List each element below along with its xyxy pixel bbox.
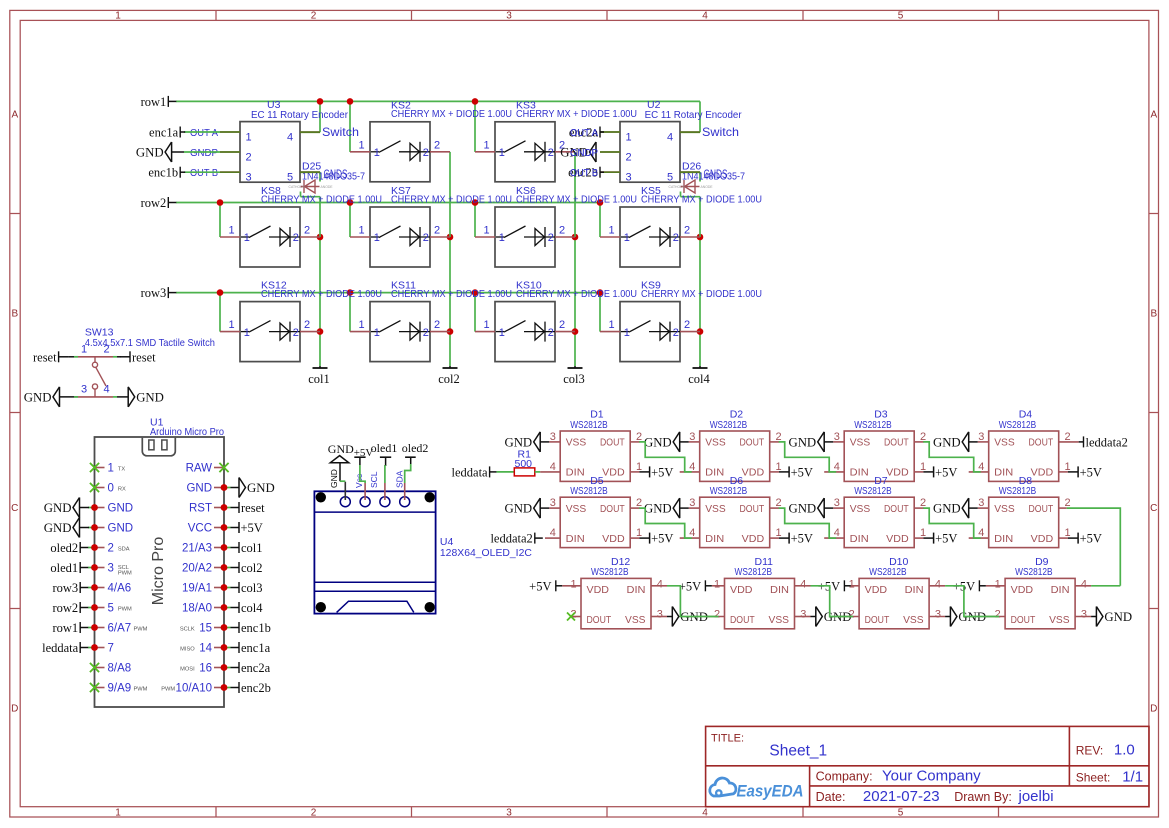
svg-text:SDA: SDA [394, 470, 404, 488]
svg-text:DIN: DIN [705, 533, 724, 545]
svg-text:DIN: DIN [566, 533, 585, 545]
svg-text:PWM: PWM [134, 626, 148, 632]
svg-text:DIN: DIN [627, 584, 646, 596]
svg-text:DOUT: DOUT [730, 614, 755, 626]
svg-text:reset: reset [132, 350, 156, 364]
svg-text:VDD: VDD [742, 533, 765, 545]
svg-text:1: 1 [499, 232, 505, 244]
svg-text:DOUT: DOUT [865, 614, 890, 626]
svg-text:DIN: DIN [994, 533, 1013, 545]
svg-text:2: 2 [304, 225, 310, 237]
svg-text:PWM: PWM [118, 606, 132, 612]
svg-text:CHERRY MX + DIODE 1.00U: CHERRY MX + DIODE 1.00U [261, 193, 382, 205]
svg-text:1: 1 [484, 139, 490, 151]
svg-text:DIN: DIN [1051, 584, 1070, 596]
svg-text:5: 5 [667, 172, 673, 184]
svg-text:enc1b: enc1b [148, 166, 178, 180]
svg-text:1: 1 [484, 319, 490, 331]
svg-text:EasyEDA: EasyEDA [737, 783, 804, 801]
svg-text:VSS: VSS [994, 437, 1015, 449]
svg-text:7: 7 [108, 643, 114, 655]
svg-text:Date:: Date: [816, 790, 846, 804]
svg-text:D: D [11, 704, 18, 715]
svg-text:1: 1 [374, 327, 380, 339]
svg-text:VDD: VDD [602, 467, 625, 479]
svg-text:GND: GND [933, 502, 961, 516]
svg-text:1/1: 1/1 [1122, 768, 1143, 785]
svg-text:+5V: +5V [791, 532, 813, 546]
svg-text:+5V: +5V [935, 532, 957, 546]
svg-text:1: 1 [499, 327, 505, 339]
svg-text:RST: RST [189, 503, 212, 515]
svg-text:DOUT: DOUT [740, 503, 765, 515]
svg-text:PWM: PWM [161, 687, 175, 693]
svg-text:+5V: +5V [935, 465, 957, 479]
svg-text:DOUT: DOUT [587, 614, 612, 626]
svg-text:GND: GND [24, 390, 52, 404]
svg-text:reset: reset [241, 501, 265, 515]
svg-text:GND: GND [504, 502, 532, 516]
svg-text:VSS: VSS [625, 614, 646, 626]
svg-text:enc1a: enc1a [241, 641, 271, 655]
svg-text:20/A2: 20/A2 [182, 563, 212, 575]
svg-text:DOUT: DOUT [884, 503, 909, 515]
svg-text:WS2812B: WS2812B [591, 566, 629, 578]
svg-text:3: 3 [108, 563, 114, 575]
svg-text:A: A [1150, 110, 1157, 121]
svg-text:1: 1 [115, 807, 121, 818]
svg-text:10/A10: 10/A10 [176, 683, 212, 695]
svg-text:2: 2 [684, 319, 690, 331]
svg-text:CHERRY MX + DIODE 1.00U: CHERRY MX + DIODE 1.00U [391, 108, 512, 120]
svg-text:DIN: DIN [994, 467, 1013, 479]
svg-text:2: 2 [434, 319, 440, 331]
svg-text:3: 3 [506, 807, 512, 818]
svg-text:col3: col3 [563, 372, 585, 386]
svg-text:4: 4 [667, 132, 673, 144]
svg-text:VSS: VSS [1049, 614, 1070, 626]
svg-text:GND: GND [108, 523, 134, 535]
svg-text:Your Company: Your Company [882, 767, 981, 784]
svg-text:WS2812B: WS2812B [999, 485, 1036, 497]
svg-text:2: 2 [423, 232, 429, 244]
svg-text:VSS: VSS [705, 503, 726, 515]
svg-text:6/A7: 6/A7 [108, 623, 132, 635]
svg-text:col2: col2 [438, 372, 460, 386]
svg-text:oled1: oled1 [371, 441, 398, 455]
svg-text:+5V: +5V [651, 532, 673, 546]
svg-text:VSS: VSS [705, 437, 726, 449]
svg-text:5: 5 [108, 603, 114, 615]
svg-text:SCL: SCL [369, 471, 379, 488]
svg-text:4: 4 [1081, 578, 1087, 590]
svg-text:row1: row1 [52, 621, 78, 635]
svg-text:OUT B: OUT B [570, 167, 598, 179]
svg-text:14: 14 [199, 643, 212, 655]
svg-text:row3: row3 [141, 286, 167, 300]
svg-text:DOUT: DOUT [600, 503, 625, 515]
svg-text:B: B [1150, 309, 1157, 320]
svg-text:WS2812B: WS2812B [1015, 566, 1053, 578]
svg-text:VDD: VDD [886, 533, 909, 545]
svg-text:4: 4 [702, 11, 708, 22]
svg-text:WS2812B: WS2812B [869, 566, 907, 578]
svg-text:Sheet:: Sheet: [1076, 770, 1111, 784]
svg-text:D: D [1150, 704, 1157, 715]
svg-text:TX: TX [118, 466, 125, 472]
svg-text:GND: GND [136, 146, 164, 160]
svg-text:1: 1 [624, 327, 630, 339]
svg-text:2: 2 [548, 327, 554, 339]
svg-text:GND: GND [1104, 610, 1132, 624]
svg-text:4: 4 [935, 578, 941, 590]
svg-text:1: 1 [995, 578, 1001, 590]
svg-text:CHERRY MX + DIODE 1.00U: CHERRY MX + DIODE 1.00U [516, 193, 637, 205]
svg-text:1: 1 [499, 147, 505, 159]
svg-text:5: 5 [898, 11, 904, 22]
svg-text:1: 1 [108, 463, 114, 475]
svg-text:4: 4 [287, 132, 293, 144]
svg-text:+5V: +5V [529, 579, 551, 593]
svg-text:3: 3 [506, 11, 512, 22]
svg-text:2: 2 [559, 319, 565, 331]
svg-text:1: 1 [374, 232, 380, 244]
svg-text:Switch: Switch [702, 125, 739, 139]
svg-text:1.0: 1.0 [1114, 742, 1135, 759]
svg-text:VSS: VSS [903, 614, 924, 626]
svg-text:Sheet_1: Sheet_1 [769, 743, 827, 760]
svg-text:SCLK: SCLK [180, 627, 195, 633]
svg-text:oled2: oled2 [50, 541, 78, 555]
svg-text:21/A3: 21/A3 [182, 543, 212, 555]
svg-text:WS2812B: WS2812B [735, 566, 773, 578]
svg-text:VDD: VDD [730, 584, 753, 596]
svg-text:leddata: leddata [452, 465, 489, 479]
svg-text:col1: col1 [241, 541, 263, 555]
svg-text:2: 2 [434, 225, 440, 237]
svg-text:DIN: DIN [850, 533, 869, 545]
svg-text:2: 2 [995, 608, 1001, 620]
svg-text:CHERRY MX + DIODE 1.00U: CHERRY MX + DIODE 1.00U [261, 288, 382, 300]
svg-text:3: 3 [800, 608, 806, 620]
svg-text:GND: GND [644, 502, 672, 516]
svg-text:3: 3 [1081, 608, 1087, 620]
svg-text:oled2: oled2 [402, 441, 429, 455]
svg-text:18/A0: 18/A0 [182, 603, 212, 615]
svg-text:+5V: +5V [651, 465, 673, 479]
svg-text:CHERRY MX + DIODE 1.00U: CHERRY MX + DIODE 1.00U [641, 288, 762, 300]
svg-text:TITLE:: TITLE: [711, 733, 744, 745]
svg-text:1: 1 [626, 132, 632, 144]
svg-text:3: 3 [657, 608, 663, 620]
svg-text:GND: GND [788, 502, 816, 516]
svg-text:2: 2 [684, 225, 690, 237]
svg-text:WS2812B: WS2812B [854, 485, 892, 497]
svg-text:VDD: VDD [1011, 584, 1034, 596]
svg-text:VCC: VCC [188, 523, 212, 535]
svg-text:enc2b: enc2b [241, 681, 271, 695]
svg-text:2: 2 [548, 147, 554, 159]
svg-text:+5V: +5V [791, 465, 813, 479]
svg-text:DIN: DIN [566, 467, 585, 479]
svg-text:GND: GND [136, 390, 164, 404]
svg-text:REV:: REV: [1076, 744, 1104, 758]
svg-text:CHERRY MX + DIODE 1.00U: CHERRY MX + DIODE 1.00U [391, 193, 512, 205]
svg-text:0: 0 [108, 483, 114, 495]
svg-text:Switch: Switch [322, 125, 359, 139]
svg-text:1: 1 [244, 327, 250, 339]
svg-text:DOUT: DOUT [740, 437, 765, 449]
svg-text:EC 11 Rotary Encoder: EC 11 Rotary Encoder [645, 109, 742, 121]
svg-text:4: 4 [702, 807, 708, 818]
svg-text:1: 1 [229, 225, 235, 237]
svg-text:CATHODE: CATHODE [289, 185, 306, 189]
svg-text:1: 1 [484, 225, 490, 237]
svg-text:+5V: +5V [1080, 465, 1102, 479]
svg-text:CHERRY MX + DIODE 1.00U: CHERRY MX + DIODE 1.00U [641, 193, 762, 205]
svg-text:WS2812B: WS2812B [854, 419, 892, 431]
svg-text:B: B [11, 309, 18, 320]
svg-text:VDD: VDD [865, 584, 888, 596]
svg-text:Drawn By:: Drawn By: [954, 790, 1012, 804]
svg-text:2: 2 [626, 152, 632, 164]
svg-text:1: 1 [609, 225, 615, 237]
svg-text:2: 2 [423, 147, 429, 159]
svg-text:VSS: VSS [994, 503, 1015, 515]
svg-text:DIN: DIN [850, 467, 869, 479]
svg-text:1: 1 [571, 578, 577, 590]
svg-text:1: 1 [609, 319, 615, 331]
svg-text:+5V: +5V [241, 521, 263, 535]
svg-text:WS2812B: WS2812B [570, 419, 608, 431]
svg-text:1: 1 [359, 319, 365, 331]
svg-text:col3: col3 [241, 581, 263, 595]
svg-text:5: 5 [287, 172, 293, 184]
svg-text:1: 1 [624, 232, 630, 244]
svg-text:RAW: RAW [186, 463, 213, 475]
svg-text:enc1b: enc1b [241, 621, 271, 635]
svg-text:col2: col2 [241, 561, 263, 575]
svg-text:DIN: DIN [770, 584, 789, 596]
svg-text:GND: GND [186, 483, 212, 495]
svg-text:1: 1 [359, 225, 365, 237]
svg-text:OUT A: OUT A [570, 127, 598, 139]
svg-text:DOUT: DOUT [600, 437, 625, 449]
svg-text:3: 3 [81, 383, 87, 395]
svg-text:VDD: VDD [742, 467, 765, 479]
svg-text:2: 2 [849, 608, 855, 620]
svg-text:GND: GND [329, 469, 339, 488]
svg-text:2: 2 [293, 327, 299, 339]
svg-text:C: C [1150, 503, 1157, 514]
svg-text:enc1a: enc1a [149, 126, 179, 140]
svg-text:15: 15 [199, 623, 212, 635]
svg-text:RX: RX [118, 486, 126, 492]
svg-text:1: 1 [359, 139, 365, 151]
svg-text:1: 1 [244, 232, 250, 244]
svg-text:leddata2: leddata2 [1086, 435, 1128, 449]
svg-text:VDD: VDD [1031, 533, 1054, 545]
svg-text:PWM: PWM [134, 686, 148, 692]
svg-text:19/A1: 19/A1 [182, 583, 212, 595]
svg-text:VSS: VSS [850, 437, 871, 449]
svg-text:2: 2 [434, 139, 440, 151]
svg-text:GND: GND [44, 521, 72, 535]
svg-text:3: 3 [935, 608, 941, 620]
svg-text:EC 11 Rotary Encoder: EC 11 Rotary Encoder [251, 109, 348, 121]
svg-text:1: 1 [115, 11, 121, 22]
svg-text:row2: row2 [141, 196, 167, 210]
svg-text:+5V: +5V [1080, 532, 1102, 546]
svg-text:VSS: VSS [566, 503, 587, 515]
svg-text:GNDS: GNDS [704, 167, 728, 181]
svg-text:Company:: Company: [816, 769, 873, 783]
svg-text:8/A8: 8/A8 [108, 663, 132, 675]
svg-text:CHERRY MX + DIODE 1.00U: CHERRY MX + DIODE 1.00U [516, 108, 637, 120]
svg-text:A: A [11, 110, 18, 121]
svg-text:1: 1 [81, 343, 87, 355]
svg-text:WS2812B: WS2812B [999, 419, 1036, 431]
svg-text:GND: GND [44, 501, 72, 515]
svg-text:MOSI: MOSI [180, 667, 195, 673]
svg-text:2: 2 [673, 232, 679, 244]
svg-text:ANODE: ANODE [321, 185, 334, 189]
svg-text:1: 1 [714, 578, 720, 590]
svg-text:GNDP: GNDP [570, 147, 598, 159]
svg-text:VSS: VSS [566, 437, 587, 449]
svg-text:CHERRY MX + DIODE 1.00U: CHERRY MX + DIODE 1.00U [391, 288, 512, 300]
svg-text:GND: GND [933, 435, 961, 449]
svg-text:5: 5 [898, 807, 904, 818]
svg-text:DOUT: DOUT [1011, 614, 1036, 626]
svg-text:Arduino Micro Pro: Arduino Micro Pro [150, 426, 224, 438]
svg-text:C: C [11, 503, 18, 514]
svg-text:16: 16 [199, 663, 212, 675]
svg-text:4: 4 [800, 578, 806, 590]
svg-text:GND: GND [328, 442, 354, 456]
svg-text:enc2a: enc2a [241, 661, 271, 675]
svg-text:VDD: VDD [1031, 467, 1054, 479]
svg-text:row3: row3 [52, 581, 78, 595]
svg-text:2: 2 [673, 327, 679, 339]
svg-text:leddata: leddata [42, 641, 79, 655]
svg-text:9/A9: 9/A9 [108, 683, 132, 695]
svg-text:row1: row1 [141, 95, 167, 109]
svg-text:4: 4 [104, 383, 110, 395]
svg-text:VDD: VDD [602, 533, 625, 545]
svg-text:CATHODE: CATHODE [669, 185, 686, 189]
svg-text:CHERRY MX + DIODE 1.00U: CHERRY MX + DIODE 1.00U [516, 288, 637, 300]
svg-text:2: 2 [423, 327, 429, 339]
svg-text:VSS: VSS [769, 614, 790, 626]
svg-text:ANODE: ANODE [701, 185, 714, 189]
svg-text:leddata2: leddata2 [490, 532, 532, 546]
svg-text:2: 2 [559, 225, 565, 237]
svg-text:1: 1 [229, 319, 235, 331]
svg-text:2: 2 [311, 11, 317, 22]
svg-text:VDD: VDD [587, 584, 610, 596]
svg-text:GND: GND [644, 435, 672, 449]
svg-text:2: 2 [714, 608, 720, 620]
svg-text:+5V: +5V [679, 579, 701, 593]
svg-text:GND: GND [108, 503, 134, 515]
svg-text:1: 1 [849, 578, 855, 590]
svg-text:WS2812B: WS2812B [710, 485, 748, 497]
svg-text:DIN: DIN [905, 584, 924, 596]
svg-text:1: 1 [374, 147, 380, 159]
svg-text:VDD: VDD [886, 467, 909, 479]
svg-text:DOUT: DOUT [1029, 503, 1054, 515]
svg-text:DOUT: DOUT [1029, 437, 1054, 449]
svg-text:4: 4 [657, 578, 663, 590]
svg-text:GNDS: GNDS [324, 167, 348, 181]
svg-text:3: 3 [626, 172, 632, 184]
svg-text:col1: col1 [308, 372, 330, 386]
svg-text:2: 2 [108, 543, 114, 555]
svg-text:Micro Pro: Micro Pro [150, 537, 167, 606]
svg-text:joelbi: joelbi [1018, 788, 1054, 805]
svg-text:2: 2 [548, 232, 554, 244]
svg-text:MISO: MISO [180, 647, 195, 653]
svg-text:DOUT: DOUT [884, 437, 909, 449]
svg-text:4/A6: 4/A6 [108, 583, 132, 595]
svg-text:GND: GND [247, 481, 275, 495]
svg-text:2: 2 [311, 807, 317, 818]
svg-text:2: 2 [104, 343, 110, 355]
svg-text:DIN: DIN [705, 467, 724, 479]
svg-text:2021-07-23: 2021-07-23 [863, 788, 940, 805]
svg-text:2: 2 [293, 232, 299, 244]
svg-text:reset: reset [33, 350, 57, 364]
svg-text:3: 3 [246, 172, 252, 184]
svg-text:oled1: oled1 [50, 561, 78, 575]
svg-text:128X64_OLED_I2C: 128X64_OLED_I2C [440, 547, 532, 559]
svg-text:WS2812B: WS2812B [570, 485, 608, 497]
svg-text:2: 2 [304, 319, 310, 331]
svg-text:GND: GND [788, 435, 816, 449]
svg-text:SDA: SDA [118, 546, 130, 552]
svg-text:500: 500 [515, 458, 533, 470]
svg-text:WS2812B: WS2812B [710, 419, 748, 431]
svg-text:2: 2 [246, 152, 252, 164]
svg-text:PWM: PWM [118, 571, 132, 577]
svg-text:VSS: VSS [850, 503, 871, 515]
svg-text:col4: col4 [688, 372, 710, 386]
svg-text:col4: col4 [241, 601, 263, 615]
svg-text:GND: GND [504, 435, 532, 449]
svg-text:1: 1 [246, 132, 252, 144]
svg-text:row2: row2 [52, 601, 78, 615]
